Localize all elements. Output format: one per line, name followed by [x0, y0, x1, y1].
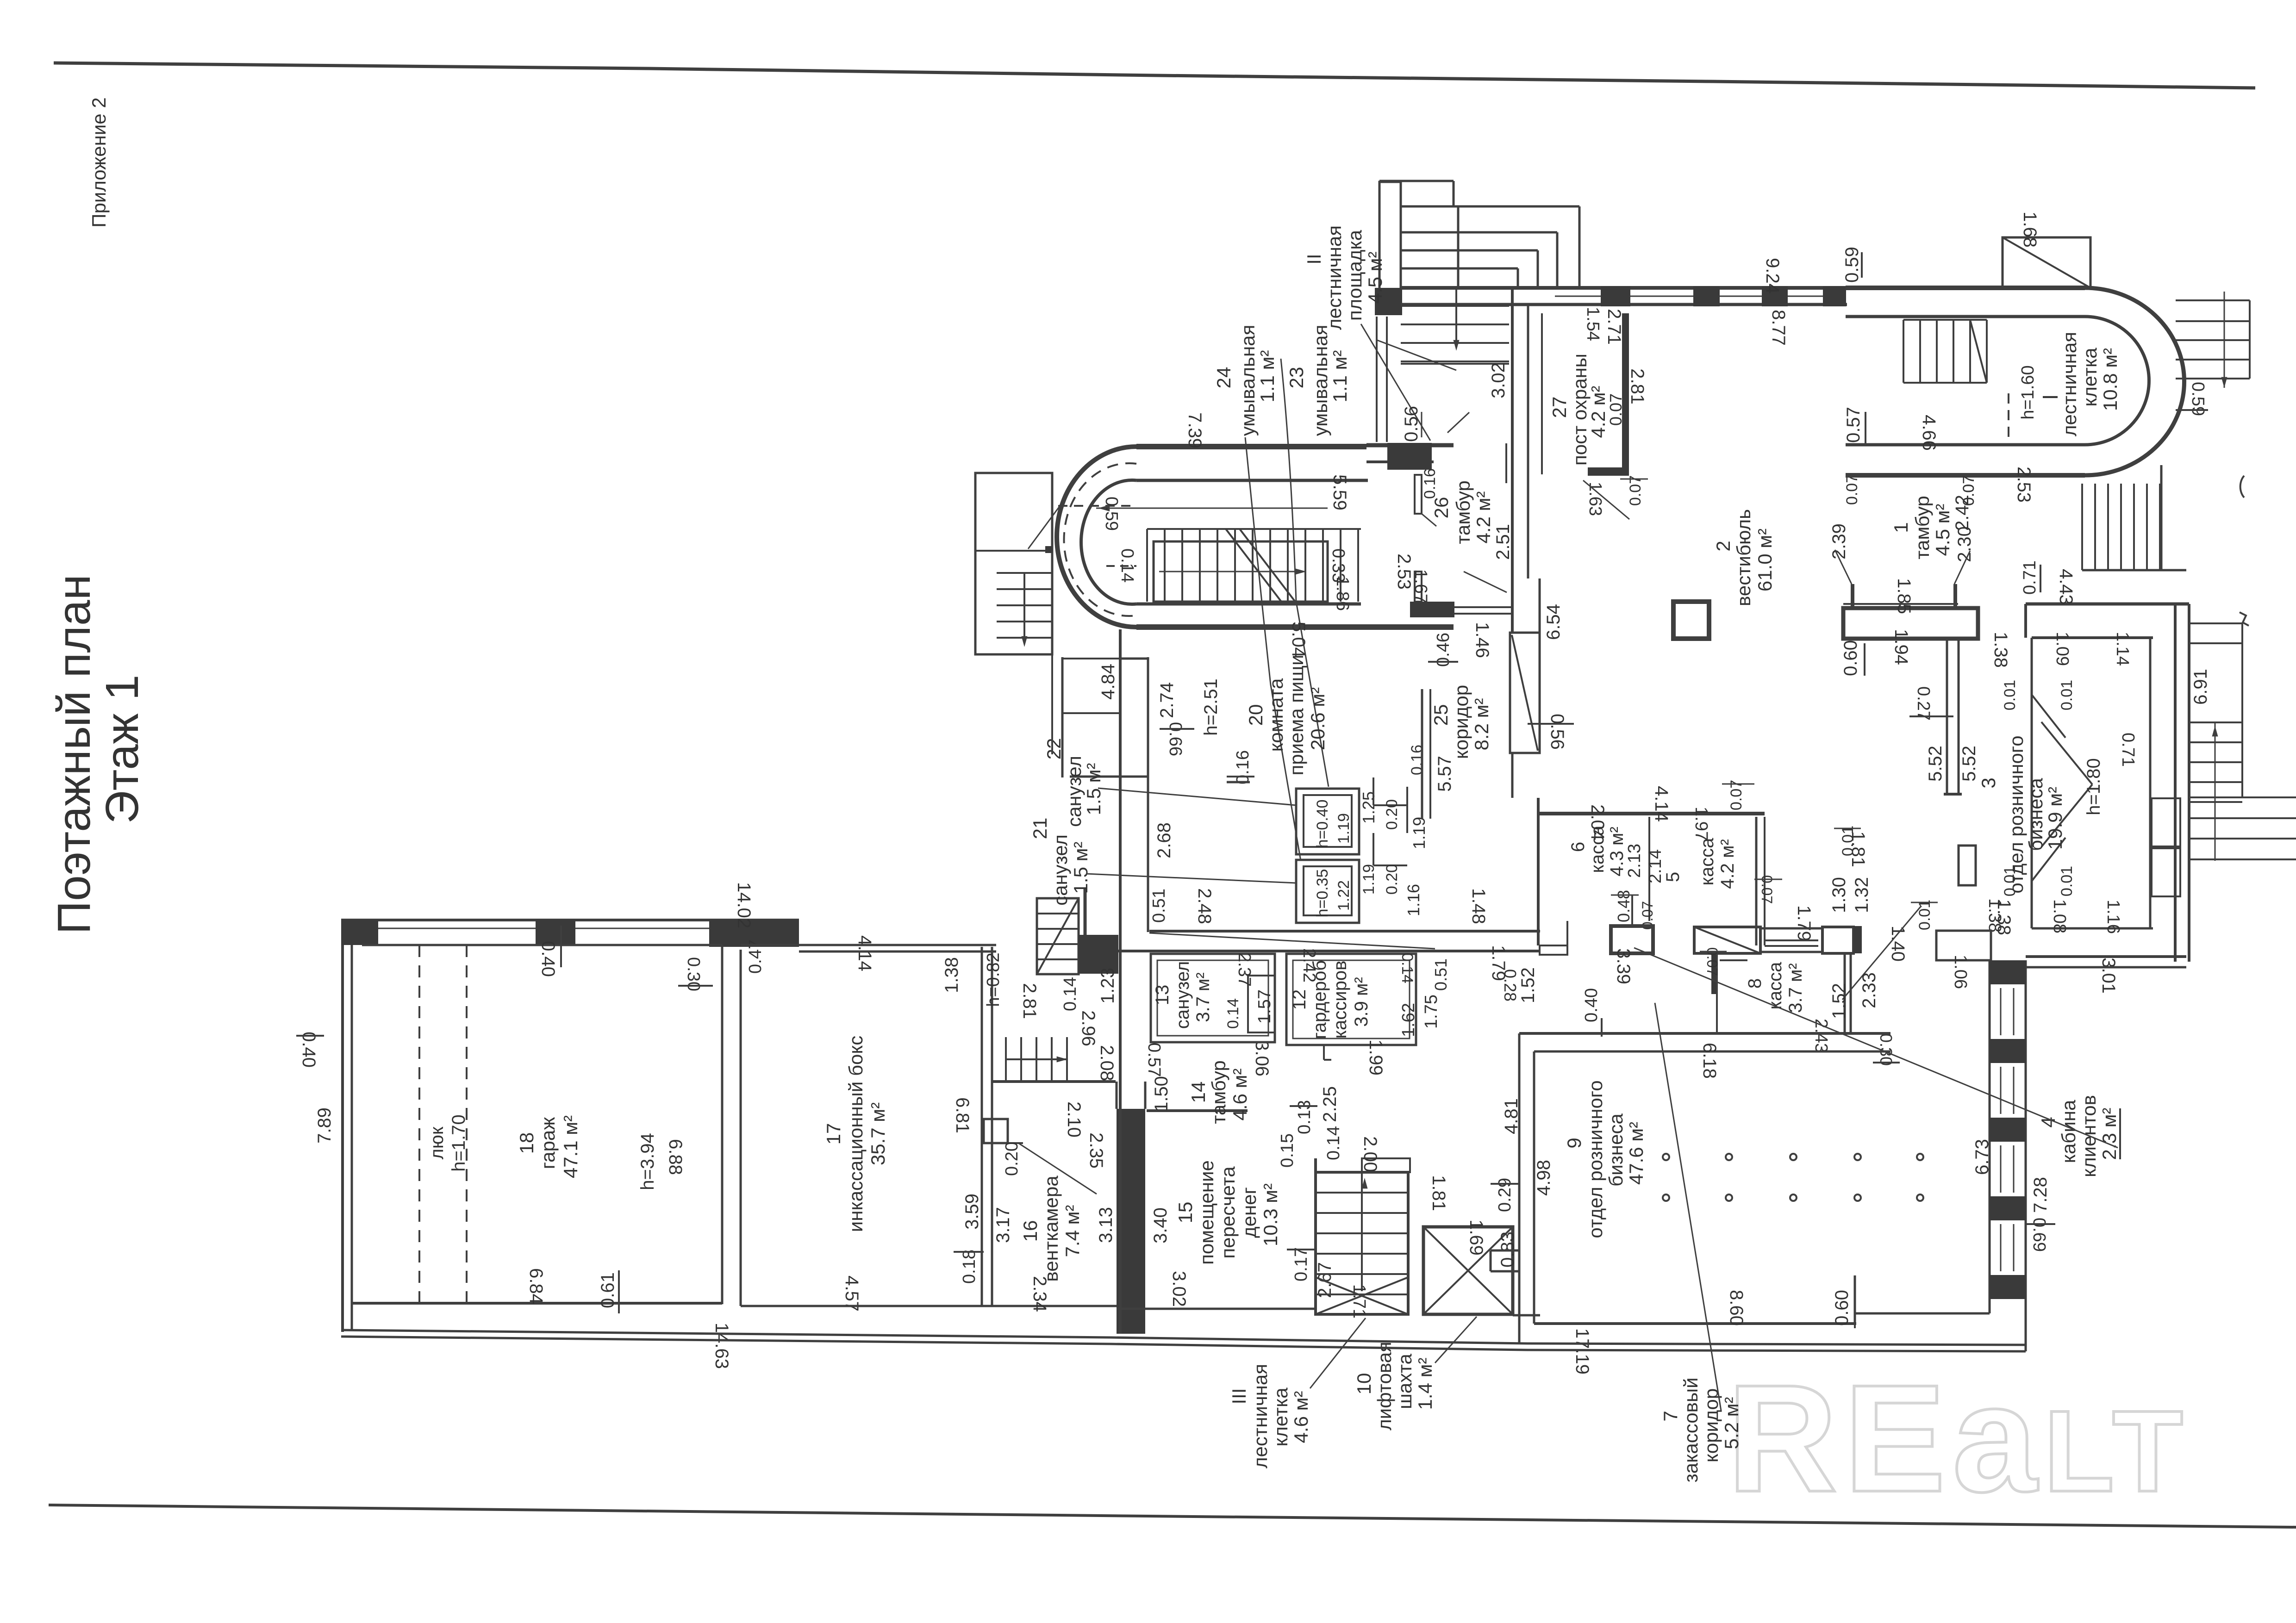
svg-text:4.5 м²: 4.5 м²: [1364, 252, 1386, 304]
svg-text:4.98: 4.98: [1534, 1160, 1554, 1196]
svg-text:1.57: 1.57: [1255, 989, 1274, 1024]
leader to венткамера: [1018, 1143, 1097, 1194]
window piers: [1601, 286, 1630, 306]
external stair NE treads: [2176, 299, 2250, 301]
svg-text:денег: денег: [1238, 1187, 1260, 1238]
north outer wall band with windows: [1401, 286, 1847, 290]
тамбур 26 jamb lower: [1415, 572, 1422, 602]
svg-text:1.1 м²: 1.1 м²: [1256, 350, 1278, 403]
svg-text:1.63: 1.63: [1585, 482, 1605, 516]
inner south wall rooms 16/17: [741, 1305, 1117, 1307]
svg-text:27: 27: [1548, 397, 1570, 418]
svg-text:клетка: клетка: [1270, 1387, 1291, 1447]
stair II cascade lines: [1401, 205, 1579, 208]
leader 22: [1098, 788, 1296, 805]
svg-text:0.40: 0.40: [538, 941, 558, 977]
svg-text:1.68: 1.68: [2020, 211, 2040, 248]
svg-text:приема пищи: приема пищи: [1285, 654, 1307, 775]
svg-text:0.69: 0.69: [2029, 1218, 2049, 1252]
room3 east pier boxes: [2152, 798, 2180, 846]
svg-text:клетка: клетка: [2079, 348, 2101, 407]
svg-text:7.89: 7.89: [314, 1107, 335, 1144]
annex east wall lower: [1051, 654, 1053, 754]
svg-text:кабина: кабина: [2058, 1100, 2079, 1163]
svg-text:2.10: 2.10: [1064, 1101, 1084, 1138]
U-stair arrow lower: [1159, 571, 1306, 572]
east stair treads lower: [2189, 796, 2296, 798]
svg-text:1.99: 1.99: [1366, 1039, 1386, 1076]
svg-text:1.52: 1.52: [1518, 967, 1538, 1003]
room 3 south wall: [2032, 927, 2153, 930]
svg-text:1.30: 1.30: [1829, 877, 1849, 913]
svg-text:1.19: 1.19: [1410, 817, 1429, 849]
svg-text:10.3 м²: 10.3 м²: [1260, 1183, 1281, 1246]
svg-text:h=1.80: h=1.80: [2084, 758, 2104, 815]
svg-text:2.37: 2.37: [1235, 952, 1254, 987]
svg-text:5: 5: [1663, 872, 1683, 882]
svg-text:1.52: 1.52: [1829, 983, 1849, 1019]
stair II top edge: [1379, 180, 1454, 182]
U-stair I bottom wall: [1846, 443, 2085, 447]
svg-text:4.2 м²: 4.2 м²: [1717, 839, 1738, 889]
svg-text:1.19: 1.19: [1360, 864, 1378, 895]
dim 0.59 dashed zone: [1058, 505, 1136, 507]
svg-text:4.43: 4.43: [2056, 569, 2076, 605]
svg-text:6.81: 6.81: [952, 1097, 973, 1133]
svg-text:вестибюль: вестибюль: [1733, 509, 1754, 606]
svg-text:2.71: 2.71: [1604, 309, 1624, 345]
annex west of U-stair: [975, 473, 1052, 654]
flight break diagonals: [1226, 529, 1281, 602]
svg-text:6.91: 6.91: [2190, 669, 2211, 705]
counter jamb stub black T: [1711, 953, 1717, 994]
U-stair cap outer arc: [1057, 447, 1136, 627]
svg-text:коридор: коридор: [1450, 685, 1472, 759]
stair III block: [1316, 1172, 1408, 1314]
svg-text:0.27: 0.27: [1914, 686, 1933, 721]
vestibule column: [1673, 602, 1709, 639]
svg-text:1.79: 1.79: [1794, 905, 1814, 941]
svg-text:2.74: 2.74: [1157, 682, 1177, 718]
leader t1b: [1954, 551, 1970, 584]
svg-text:0.57: 0.57: [1144, 1043, 1164, 1077]
svg-text:1.85: 1.85: [1894, 578, 1914, 614]
black pier at stair II: [1375, 288, 1402, 315]
svg-text:лестничная: лестничная: [1323, 225, 1345, 330]
south outer wall band: [341, 1330, 2026, 1345]
svg-text:1.62: 1.62: [1399, 1003, 1418, 1037]
tambur jamb right: [1953, 584, 1957, 607]
U-stair I cap outer: [2085, 288, 2184, 475]
rooms 21/22 санузлы cells: [1061, 657, 1064, 777]
room 17 west wall: [740, 950, 742, 1306]
U-stair I inner flight treads: [1903, 320, 1904, 383]
svg-text:0.16: 0.16: [1233, 750, 1253, 784]
kassa8-vestibule jamb: [1540, 945, 1567, 955]
svg-text:гараж: гараж: [537, 1117, 559, 1169]
door stub room 12: [1323, 1045, 1325, 1060]
svg-text:Приложение 2: Приложение 2: [88, 97, 110, 227]
svg-text:2.08: 2.08: [1097, 1045, 1117, 1081]
svg-text:0.14: 0.14: [1324, 1126, 1343, 1160]
svg-text:2.35: 2.35: [1086, 1132, 1106, 1169]
svg-text:лестничная: лестничная: [1249, 1364, 1271, 1468]
room 23 box h=0.35: [1296, 860, 1359, 923]
black pier санузлы: [1079, 935, 1118, 974]
leader into annex: [1028, 504, 1061, 549]
second leader cross: [1842, 906, 1921, 1000]
stair III under-stair cross: [1316, 1277, 1408, 1314]
corridor jogs near 23/24: [1373, 777, 1374, 805]
leader t1a: [1835, 550, 1852, 584]
garage east wall: [721, 945, 724, 1304]
svg-text:h=2.51: h=2.51: [1201, 678, 1221, 735]
room 9 west notch: [1491, 1250, 1519, 1252]
svg-text:h=0.35: h=0.35: [1314, 869, 1331, 918]
svg-text:16: 16: [1019, 1220, 1041, 1242]
svg-text:4.66: 4.66: [1919, 415, 1939, 451]
svg-text:0.71: 0.71: [2020, 560, 2040, 595]
svg-text:9: 9: [1563, 1138, 1585, 1148]
svg-text:1.86: 1.86: [1333, 577, 1352, 611]
svg-text:1.32: 1.32: [1852, 877, 1872, 913]
svg-text:0.01: 0.01: [2058, 866, 2076, 896]
svg-text:комната: комната: [1265, 678, 1287, 752]
svg-text:0.18: 0.18: [960, 1250, 979, 1284]
svg-text:1.79: 1.79: [1488, 945, 1509, 981]
svg-text:1.48: 1.48: [1468, 888, 1489, 924]
block stair down small: [1037, 898, 1079, 974]
svg-text:21: 21: [1029, 818, 1051, 839]
svg-text:25: 25: [1430, 704, 1452, 726]
post okhrany east wall dark: [1622, 313, 1629, 474]
svg-text:0.66: 0.66: [1166, 722, 1185, 756]
svg-text:III: III: [1228, 1388, 1250, 1404]
svg-text:0.14: 0.14: [1398, 953, 1416, 983]
svg-text:1.22: 1.22: [1335, 880, 1353, 911]
svg-text:пересчета: пересчета: [1217, 1166, 1239, 1259]
door rect with leaf: [1510, 633, 1540, 753]
room 20 wall stub south-east: [1227, 781, 1250, 784]
svg-text:3.02: 3.02: [1169, 1271, 1189, 1307]
тамбур 26 north wall: [1366, 443, 1434, 448]
room 9 column dots: [1663, 1154, 1669, 1160]
leader 26: [1422, 514, 1436, 526]
kassa 5 east wall: [1755, 817, 1758, 945]
kassa 6 west wall: [1537, 798, 1540, 945]
svg-text:венткамера: венткамера: [1040, 1175, 1062, 1282]
svg-text:4.14: 4.14: [1651, 786, 1672, 822]
svg-text:2.25: 2.25: [1320, 1086, 1340, 1122]
svg-text:5.52: 5.52: [1925, 746, 1946, 782]
svg-text:тамбур: тамбур: [1911, 496, 1933, 560]
wall stub pillar: [1959, 846, 1976, 885]
svg-text:0.07: 0.07: [1843, 474, 1861, 505]
room 16 north wall: [992, 1080, 1116, 1083]
garage inner north wall: [362, 944, 722, 946]
svg-text:3.9 м²: 3.9 м²: [1351, 977, 1372, 1027]
тамбур 26 south wall black band: [1410, 602, 1454, 617]
svg-text:26: 26: [1430, 497, 1452, 519]
svg-text:санузел: санузел: [1049, 834, 1071, 906]
svg-text:Этаж 1: Этаж 1: [96, 675, 148, 824]
leader II a: [1361, 324, 1430, 441]
svg-text:13: 13: [1152, 985, 1173, 1006]
room 9 south wall: [1534, 1322, 1856, 1325]
svg-text:h=0.40: h=0.40: [1314, 800, 1331, 848]
svg-text:тамбур: тамбур: [1452, 480, 1474, 544]
svg-text:7.39: 7.39: [1185, 412, 1205, 448]
corridor 25 walls lower: [1421, 689, 1423, 819]
kassa 5/6 divider: [1648, 817, 1650, 921]
svg-text:2.96: 2.96: [1078, 1010, 1098, 1046]
svg-text:4.84: 4.84: [1098, 664, 1118, 700]
svg-text:18: 18: [516, 1132, 537, 1154]
svg-text:0.51: 0.51: [1431, 958, 1450, 991]
svg-text:15: 15: [1174, 1202, 1196, 1224]
svg-text:8.77: 8.77: [1768, 310, 1789, 346]
svg-text:1.75: 1.75: [1422, 995, 1441, 1029]
svg-text:лестничная: лестничная: [2059, 332, 2080, 436]
svg-text:0.01: 0.01: [2058, 680, 2076, 710]
svg-text:6.18: 6.18: [1699, 1043, 1720, 1079]
room 24 box h=0.40: [1296, 789, 1359, 854]
door bottom wall: [1511, 753, 1514, 798]
svg-text:5.04: 5.04: [1288, 622, 1309, 658]
svg-text:0.56: 0.56: [1547, 714, 1567, 750]
svg-text:8.60: 8.60: [1726, 1290, 1747, 1326]
stair III west wall: [1314, 1158, 1317, 1314]
svg-text:4.6 м²: 4.6 м²: [1229, 1069, 1251, 1121]
svg-text:3.40: 3.40: [1150, 1207, 1171, 1244]
svg-text:1.25: 1.25: [1359, 791, 1378, 824]
dim 0.48 line: [1631, 895, 1633, 926]
svg-text:2.14: 2.14: [1646, 849, 1665, 883]
room 3 north wall: [2026, 603, 2189, 606]
svg-text:0.01: 0.01: [1839, 826, 1857, 856]
U-stair dashed arc: [1064, 463, 1136, 616]
svg-text:2.39: 2.39: [1829, 523, 1849, 560]
svg-text:умывальная: умывальная: [1310, 325, 1331, 436]
svg-text:8: 8: [1745, 978, 1765, 989]
leader lift: [1435, 1317, 1477, 1363]
svg-text:2.53: 2.53: [2014, 466, 2034, 503]
svg-text:0.61: 0.61: [598, 1272, 618, 1308]
svg-text:2.51: 2.51: [1493, 524, 1513, 560]
svg-text:0.59: 0.59: [1842, 247, 1862, 283]
stair III top landing: [1362, 1158, 1410, 1172]
svg-text:0.71: 0.71: [2118, 733, 2138, 767]
svg-text:касса: касса: [1765, 962, 1785, 1010]
U-stair cap inner arc: [1081, 480, 1136, 604]
svg-text:1.40: 1.40: [1888, 926, 1908, 962]
room 9 NE wall chunk: [1936, 931, 1991, 960]
leader room 7: [1655, 1003, 1721, 1411]
svg-text:8.2 м²: 8.2 м²: [1471, 698, 1492, 751]
svg-text:закассовый: закассовый: [1680, 1377, 1702, 1482]
svg-text:h=3.94: h=3.94: [637, 1133, 658, 1190]
page top border line: [54, 63, 2255, 88]
U-stair I top wall: [1846, 286, 2085, 290]
bracket marks: [2240, 612, 2249, 626]
U-stair bottom wall outer: [1136, 624, 1454, 630]
tambur 1 east wall vertical: [1947, 639, 1959, 794]
svg-text:10.8 м²: 10.8 м²: [2099, 348, 2121, 411]
inner south wall central part: [1117, 1308, 1316, 1310]
svg-text:1.23: 1.23: [1098, 968, 1118, 1004]
svg-text:14: 14: [1187, 1082, 1209, 1103]
U-stair top wall inner: [1136, 479, 1368, 482]
U-stair I cap inner: [2085, 317, 2149, 445]
svg-text:1.16: 1.16: [2103, 900, 2123, 934]
svg-text:20.6 м²: 20.6 м²: [1307, 687, 1329, 750]
double wall west of room 20: [1119, 629, 1122, 1334]
svg-text:14.02: 14.02: [734, 882, 754, 928]
svg-text:2.81: 2.81: [1019, 983, 1040, 1019]
svg-text:3.06: 3.06: [1252, 1040, 1272, 1076]
corridor wall notch: [1505, 443, 1507, 483]
U-stair top wall outer: [1136, 444, 1366, 449]
svg-text:2.68: 2.68: [1154, 822, 1174, 858]
svg-text:17: 17: [823, 1123, 844, 1145]
svg-text:0.07: 0.07: [1606, 393, 1625, 426]
svg-text:4.14: 4.14: [855, 935, 875, 971]
stair II chimney strip: [1379, 182, 1401, 290]
svg-text:2.34: 2.34: [1029, 1276, 1050, 1312]
svg-text:2.81: 2.81: [1627, 368, 1647, 404]
svg-text:площадка: площадка: [1344, 230, 1366, 321]
svg-text:2.33: 2.33: [1859, 972, 1879, 1008]
svg-text:0.17: 0.17: [1291, 1247, 1311, 1281]
east wall piers lower: [2189, 604, 2190, 962]
svg-text:люк: люк: [427, 1126, 447, 1159]
svg-text:0.40: 0.40: [299, 1032, 319, 1068]
svg-text:санузел: санузел: [1173, 961, 1193, 1029]
room 9 SE bay walls: [1854, 1275, 1856, 1324]
svg-text:7.4 м²: 7.4 м²: [1061, 1205, 1083, 1257]
svg-text:3: 3: [1978, 777, 1999, 788]
leader 24 long: [1245, 437, 1301, 861]
svg-text:h=0.82: h=0.82: [984, 952, 1003, 1007]
svg-text:1.4 м²: 1.4 м²: [1414, 1358, 1436, 1410]
kassa top wall: [1538, 812, 1765, 815]
svg-text:2.04: 2.04: [1587, 804, 1608, 840]
room 3 chamfer diagonals: [2032, 695, 2065, 738]
svg-text:24: 24: [1213, 367, 1235, 389]
svg-text:4.6 м²: 4.6 м²: [1290, 1391, 1312, 1443]
counter stoika 3.39 box: [1611, 926, 1653, 953]
svg-text:1.54: 1.54: [1583, 307, 1603, 341]
long wall with ramp south of room 20: [1149, 930, 1540, 933]
svg-text:0.07: 0.07: [1960, 475, 1978, 506]
window sill lines: [1555, 296, 1601, 297]
paper mark arc: [2240, 476, 2244, 497]
svg-text:2.00: 2.00: [1360, 1136, 1380, 1172]
svg-text:1.19: 1.19: [1335, 813, 1353, 844]
svg-text:6: 6: [1568, 842, 1588, 852]
room 9 west wall: [1518, 1033, 1521, 1344]
svg-text:6.54: 6.54: [1543, 604, 1564, 640]
svg-text:23: 23: [1285, 367, 1307, 389]
svg-text:0.16: 0.16: [1421, 468, 1439, 499]
room 16 east thick wall: [1117, 1109, 1145, 1334]
svg-text:2.48: 2.48: [1194, 888, 1215, 924]
svg-text:1.38: 1.38: [1990, 632, 2011, 668]
svg-text:47.6 м²: 47.6 м²: [1625, 1122, 1647, 1185]
svg-text:3.17: 3.17: [993, 1207, 1013, 1243]
svg-text:1.14: 1.14: [2113, 632, 2132, 666]
svg-text:3.01: 3.01: [2098, 958, 2119, 994]
svg-text:0.51: 0.51: [1149, 889, 1169, 923]
svg-text:1.94: 1.94: [1891, 629, 1911, 665]
svg-text:4.3 м²: 4.3 м²: [1607, 827, 1627, 877]
svg-text:1.09: 1.09: [2053, 632, 2072, 666]
svg-text:2: 2: [1712, 541, 1734, 551]
svg-text:2.13: 2.13: [1625, 844, 1644, 878]
dashed h=1.60: [2008, 393, 2009, 445]
west wall of stair II lower flight: [1376, 317, 1378, 442]
room 9 north wall: [1519, 1032, 1890, 1035]
svg-text:0.60: 0.60: [1832, 1290, 1852, 1326]
ramp lines east: [2189, 622, 2242, 624]
U-stair bottom wall inner: [1136, 603, 1361, 606]
svg-text:0.01: 0.01: [1916, 900, 1934, 930]
svg-text:3.7 м²: 3.7 м²: [1193, 972, 1213, 1022]
svg-text:1.5 м²: 1.5 м²: [1070, 842, 1092, 894]
garage north outer wall: [341, 919, 799, 921]
room 3 east wall: [2174, 604, 2177, 962]
post okhrany south wall dark: [1588, 467, 1629, 476]
svg-text:помещение: помещение: [1196, 1160, 1217, 1265]
leader post okhrany: [1583, 480, 1629, 519]
svg-text:61.0 м²: 61.0 м²: [1754, 529, 1776, 591]
svg-text:2.3 м²: 2.3 м²: [2098, 1108, 2120, 1160]
svg-text:тамбур: тамбур: [1208, 1060, 1229, 1124]
svg-text:19.9 м²: 19.9 м²: [2044, 787, 2066, 850]
svg-text:0.01: 0.01: [2001, 866, 2019, 896]
leader stair III: [1310, 1318, 1366, 1388]
svg-text:0.14: 0.14: [1224, 998, 1242, 1029]
svg-text:бизнеса: бизнеса: [2025, 778, 2046, 851]
svg-text:0.57: 0.57: [1843, 407, 1864, 443]
svg-text:1.50: 1.50: [1151, 1076, 1172, 1112]
svg-text:шахта: шахта: [1394, 1354, 1416, 1409]
svg-text:0.56: 0.56: [1401, 406, 1422, 442]
post okhrany west wall: [1541, 313, 1543, 474]
box 1.68 with diagonal: [2003, 237, 2090, 288]
svg-text:1.97: 1.97: [1691, 807, 1711, 841]
garage outer west wall: [341, 919, 344, 1332]
svg-text:3.39: 3.39: [1613, 948, 1634, 984]
svg-text:0.15: 0.15: [1278, 1133, 1297, 1168]
svg-text:5.2 м²: 5.2 м²: [1721, 1397, 1742, 1449]
svg-text:санузел: санузел: [1063, 756, 1085, 827]
svg-text:Поэтажный план: Поэтажный план: [48, 574, 100, 934]
svg-text:0.60: 0.60: [1841, 640, 1861, 676]
svg-text:3.59: 3.59: [962, 1194, 982, 1230]
kassa 8 east wall: [1844, 953, 1846, 1033]
lift shaft 10: [1423, 1227, 1513, 1314]
U-stair lower flight box: [1154, 541, 1328, 602]
leader кабина клиентов: [1634, 948, 2118, 1148]
svg-text:6.84: 6.84: [526, 1268, 546, 1304]
svg-text:0.40: 0.40: [1582, 988, 1601, 1022]
tambur jamb left: [1851, 584, 1854, 607]
svg-text:1.16: 1.16: [1404, 884, 1423, 916]
svg-text:6.88: 6.88: [665, 1139, 686, 1175]
svg-text:3.7 м²: 3.7 м²: [1785, 963, 1806, 1013]
garage north wall piers: [341, 920, 378, 945]
